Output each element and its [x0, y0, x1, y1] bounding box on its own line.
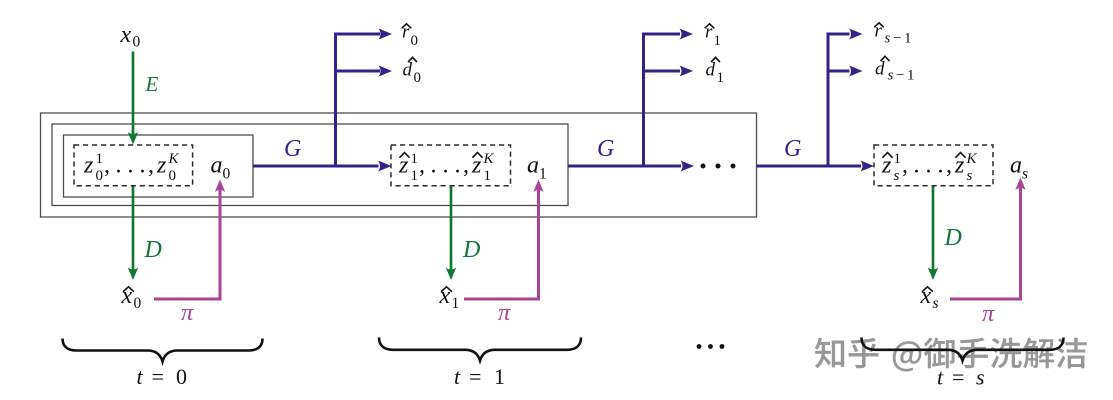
ellipsis mid-line	[701, 164, 736, 169]
label x_0	[120, 22, 141, 51]
svg-text:.: .	[443, 153, 449, 179]
outer rollout box	[41, 113, 757, 217]
svg-text:−: −	[893, 31, 901, 47]
arrowhead G3	[861, 161, 875, 172]
label a_1	[527, 153, 547, 183]
svg-text:1: 1	[411, 151, 419, 167]
svg-text:−: −	[896, 68, 904, 84]
svg-text:G: G	[284, 136, 301, 162]
ellipsis bottom	[697, 344, 725, 349]
svg-text:z: z	[83, 153, 94, 179]
policy pi3 head	[1015, 178, 1026, 191]
branch wire up 1	[334, 34, 337, 166]
svg-text:d: d	[875, 59, 885, 80]
svg-text:1: 1	[717, 70, 725, 86]
label dhat_s-1	[875, 56, 915, 83]
svg-text:,: ,	[104, 153, 110, 179]
svg-text:π: π	[982, 300, 995, 327]
label D1	[144, 237, 162, 263]
svg-text:s: s	[933, 295, 939, 312]
decoder arrow D2 head	[446, 268, 457, 281]
svg-text:.: .	[938, 153, 944, 179]
decoder arrow D3 wire	[932, 187, 935, 270]
svg-text:D: D	[944, 225, 962, 251]
done wire d1	[642, 66, 693, 77]
reward wire r_s-1	[827, 29, 863, 40]
svg-text:0: 0	[96, 168, 104, 184]
svg-text:G: G	[597, 136, 614, 162]
label pi2	[498, 299, 511, 326]
label G2	[597, 136, 614, 162]
svg-text:.: .	[116, 153, 122, 179]
svg-text:.: .	[914, 153, 920, 179]
svg-text:1: 1	[714, 33, 722, 49]
svg-text:,: ,	[902, 153, 908, 179]
policy pi2 head	[533, 180, 544, 193]
svg-text:K: K	[168, 151, 180, 167]
policy pi3 wire	[950, 187, 1021, 300]
svg-text:0: 0	[134, 295, 142, 312]
arrowhead G2	[681, 161, 695, 172]
svg-text:1: 1	[96, 151, 104, 167]
label t=0	[137, 364, 188, 389]
label xhat_0	[121, 283, 142, 312]
label xhat_1	[439, 283, 460, 312]
svg-text:K: K	[966, 151, 978, 167]
svg-text:x: x	[120, 22, 132, 48]
reward wire r0	[334, 29, 392, 40]
svg-text:G: G	[784, 136, 801, 162]
svg-text:1: 1	[494, 364, 505, 389]
done wire d0	[334, 66, 392, 77]
brace t=1	[379, 338, 581, 361]
label pi3	[982, 300, 995, 327]
label G3	[784, 136, 801, 162]
label dhat_0	[403, 57, 422, 86]
label t=1	[454, 364, 505, 389]
encoder arrow E wire	[132, 52, 135, 135]
svg-text:,: ,	[463, 153, 469, 179]
svg-text:.: .	[926, 153, 932, 179]
decoder arrow D1 wire	[132, 187, 135, 270]
arrowhead G1	[378, 161, 392, 172]
dashed latent box z_0	[74, 145, 193, 186]
svg-text:z: z	[156, 153, 167, 179]
svg-text:π: π	[498, 299, 511, 326]
svg-text:d: d	[403, 60, 413, 81]
svg-text:s: s	[894, 168, 900, 184]
label a_0	[211, 153, 231, 183]
svg-text:=: =	[469, 364, 481, 389]
svg-text:0: 0	[133, 34, 141, 51]
label D2	[462, 237, 480, 263]
label E	[145, 72, 159, 96]
svg-text:.: .	[431, 153, 437, 179]
watermark zhihu @yushouxijiejie	[815, 338, 1087, 372]
decoder arrow D3 head	[928, 268, 939, 281]
svg-text:s: s	[976, 365, 985, 390]
svg-text:.: .	[128, 153, 134, 179]
svg-text:t: t	[937, 365, 944, 390]
label t=s	[937, 365, 985, 390]
svg-text:t: t	[137, 364, 144, 389]
svg-text:1: 1	[539, 166, 547, 183]
latents z_0 text	[83, 151, 180, 184]
label pi1	[181, 299, 194, 326]
label rhat_s-1	[875, 21, 912, 47]
svg-text:.: .	[455, 153, 461, 179]
label D3	[944, 225, 962, 251]
reward wire r1	[642, 29, 693, 40]
svg-text:0: 0	[169, 168, 177, 184]
policy pi2 wire	[464, 189, 539, 300]
svg-text:s: s	[1022, 166, 1028, 183]
svg-text:1: 1	[411, 168, 419, 184]
svg-text:E: E	[145, 72, 159, 96]
branch wire up 3	[827, 34, 830, 166]
svg-text:1: 1	[894, 151, 902, 167]
svg-text:K: K	[483, 151, 495, 167]
latents zhat_1 text	[398, 151, 495, 184]
label rhat_1	[705, 22, 721, 50]
policy pi1 head	[215, 180, 226, 193]
inner box t=0	[64, 135, 254, 197]
dashed latent box z_1	[391, 145, 511, 186]
wire G1 horizontal	[253, 165, 379, 168]
policy pi1 wire	[154, 189, 220, 300]
svg-text:0: 0	[176, 364, 187, 389]
svg-text:.: .	[140, 153, 146, 179]
svg-text:=: =	[152, 364, 164, 389]
done wire d_s-1	[827, 66, 863, 77]
middle rollout box	[52, 124, 568, 206]
brace t=s	[862, 338, 1064, 361]
svg-text:D: D	[462, 237, 480, 263]
decoder arrow D1 head	[128, 268, 139, 281]
encoder arrow E head	[128, 132, 139, 145]
svg-text:s: s	[885, 31, 891, 47]
svg-text:s: s	[888, 68, 894, 84]
svg-text:x: x	[121, 283, 133, 309]
label rhat_0	[402, 22, 418, 50]
wire G3 horizontal	[757, 165, 862, 168]
svg-text:x: x	[920, 283, 932, 309]
svg-text:=: =	[952, 365, 964, 390]
svg-text:s: s	[967, 168, 973, 184]
svg-text:0: 0	[223, 166, 231, 183]
svg-text:D: D	[144, 237, 162, 263]
svg-text:d: d	[706, 60, 716, 81]
svg-text:1: 1	[484, 168, 492, 184]
brace t=0	[63, 339, 263, 362]
dashed latent box z_s	[874, 145, 993, 186]
svg-text:,: ,	[148, 153, 154, 179]
svg-text:,: ,	[946, 153, 952, 179]
wire G2 horizontal	[568, 165, 681, 168]
svg-text:a: a	[211, 153, 223, 179]
svg-text:0: 0	[411, 33, 419, 49]
svg-text:x: x	[439, 283, 451, 309]
decoder arrow D2 wire	[450, 187, 453, 270]
label G1	[284, 136, 301, 162]
svg-text:1: 1	[907, 68, 915, 84]
svg-text:π: π	[181, 299, 194, 326]
branch wire up 2	[642, 34, 645, 166]
svg-text:1: 1	[452, 295, 460, 312]
svg-text:t: t	[454, 364, 461, 389]
label dhat_1	[706, 57, 725, 86]
label a_s	[1010, 153, 1028, 183]
svg-text:,: ,	[419, 153, 425, 179]
svg-text:a: a	[527, 153, 539, 179]
svg-text:a: a	[1010, 153, 1022, 179]
svg-text:1: 1	[904, 31, 912, 47]
label xhat_s	[920, 283, 939, 312]
svg-text:0: 0	[414, 70, 422, 86]
latents zhat_s text	[881, 151, 978, 184]
